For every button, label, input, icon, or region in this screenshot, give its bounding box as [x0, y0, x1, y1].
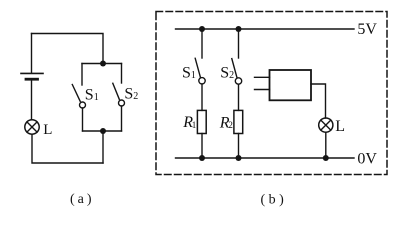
wire: S1 branch upper stub (a): [81, 64, 83, 86]
node: R1 on 0V rail: [199, 155, 205, 161]
wire: S1 branch lower stub (a): [82, 108, 84, 131]
switch S1 (circuit a) contact circle: [80, 102, 86, 108]
wire: circuit (a) left wire upper (to battery): [31, 34, 33, 73]
wire: lamp to 0V rail (b): [325, 132, 327, 158]
resistor R2: [234, 110, 243, 133]
node: S2 branch on 5V rail: [236, 26, 242, 32]
wire: R2 to 0V rail: [238, 134, 240, 159]
lamp L (circuit b): [319, 118, 333, 132]
switch S2 (circuit b) blade: [232, 59, 237, 78]
wire: S1 branch upper stub (b): [201, 29, 203, 58]
dashed enclosure box (b): [156, 12, 387, 175]
lamp L (circuit a): [25, 120, 39, 134]
wire: S2 branch lower stub (a): [121, 106, 123, 131]
wire: +5V rail (b): [176, 28, 355, 30]
wire: gate input stub 2: [255, 89, 270, 91]
node: bottom junction of parallel switches (a): [100, 128, 106, 134]
wire: parallel box top bar (a): [82, 63, 122, 65]
svg-text:5V: 5V: [357, 21, 377, 38]
switch S1 (circuit b) contact circle: [199, 78, 205, 84]
switch S1 (circuit a) blade: [72, 85, 80, 102]
node: top junction of parallel switches (a): [100, 61, 106, 67]
wire: S2 branch upper stub (a): [121, 64, 123, 84]
svg-text:0V: 0V: [357, 150, 377, 167]
wire: gate output to lamp: [311, 84, 326, 118]
resistor R1: [197, 110, 206, 133]
switch S2 (circuit a) blade: [113, 83, 120, 99]
svg-text:L: L: [335, 118, 345, 135]
wire: S1 to R1 (b): [201, 84, 203, 110]
node: S1 branch on 5V rail: [199, 26, 205, 32]
battery B (cell): [21, 73, 43, 79]
svg-text:L: L: [43, 122, 52, 138]
wire: lamp to bottom wire: [32, 134, 103, 163]
wire: gate input stub 1: [255, 76, 270, 78]
logic gate U1 (rectangle): [270, 70, 312, 100]
svg-text:(a): (a): [70, 192, 95, 207]
wire: battery to lamp: [31, 80, 33, 119]
wire: S2 to R2 (b): [238, 84, 240, 110]
node: R2 on 0V rail: [236, 155, 242, 161]
switch S2 (circuit b) contact circle: [235, 78, 241, 84]
wire: parallel box bottom bar (a): [83, 130, 122, 132]
wire: S2 branch upper stub (b): [238, 29, 240, 58]
switch S1 (circuit b) blade: [195, 58, 200, 77]
node: lamp on 0V rail: [323, 155, 329, 161]
wire: 0V rail (b): [176, 157, 355, 159]
wire: R1 to 0V rail: [201, 134, 203, 159]
wire: circuit (a) top wire: [32, 34, 104, 64]
svg-text:(b): (b): [261, 193, 288, 208]
switch S2 (circuit a) contact circle: [119, 100, 125, 106]
wire: bottom stem (a): [102, 131, 104, 163]
